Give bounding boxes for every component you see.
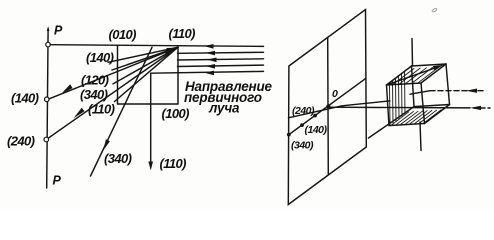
dashed continuation of upper ray — [430, 90, 486, 92]
svg-text:(340): (340) — [80, 87, 108, 102]
crystal square right edge — [177, 47, 179, 104]
svg-text:(140): (140) — [305, 124, 328, 136]
arrow tip at top of P line — [47, 26, 50, 31]
arrowhead on f3 — [61, 84, 73, 94]
svg-text:P: P — [54, 24, 63, 38]
svg-text:P: P — [53, 174, 62, 188]
fan trace f6 (110) — [115, 47, 179, 101]
node: open circle (240) on P line — [44, 137, 49, 142]
arrowhead primary beam — [470, 106, 481, 110]
spot dot (240) — [313, 114, 317, 118]
scan speck top right — [432, 8, 437, 12]
node: open circle (140) on P line — [45, 97, 50, 102]
svg-text:луча: луча — [208, 101, 240, 116]
arrowhead on f5 — [74, 108, 85, 119]
svg-text:(110): (110) — [88, 102, 115, 117]
crystal square bottom edge — [118, 103, 179, 105]
rotation axis below cube — [420, 122, 421, 151]
plate line P (left film trace) — [47, 29, 48, 188]
svg-text:0: 0 — [332, 88, 338, 100]
beam 3 — [178, 59, 264, 60]
hatching left face of cube — [390, 71, 406, 125]
beam 4 — [178, 65, 264, 66]
svg-text:(140): (140) — [86, 50, 114, 65]
svg-text:(240): (240) — [292, 105, 315, 117]
crystal cube hidden bottom-left edge FBL-BBL with tail extension — [369, 107, 415, 138]
svg-text:(140): (140) — [11, 91, 39, 106]
beam 5 (passes into square) — [151, 71, 264, 73]
fan ray f3 to circle (140) — [49, 47, 178, 99]
crystal square left edge — [117, 45, 119, 104]
crystal cube top face edge FTL-BTL — [387, 66, 412, 85]
dashed tail of primary beam — [474, 107, 490, 109]
steep diffraction line through plate — [289, 79, 366, 135]
spot dot (340) on plate edge — [287, 133, 291, 137]
diffracted ray (110)bar vertical arrow — [150, 73, 152, 166]
svg-text:(340): (340) — [104, 151, 132, 166]
diffracted ray (340) long arrow — [91, 47, 153, 176]
node: open circle at top of P line — [46, 42, 51, 47]
wire: top line from P circle to square corner, continues as beam 1 — [50, 45, 263, 47]
inner solid piece of upper ray — [410, 91, 430, 95]
primary beam horizontal through O — [328, 106, 470, 109]
svg-text:(120): (120) — [81, 73, 109, 88]
crystal cube bottom right edge FBR-BBR — [425, 105, 450, 124]
svg-text:(240): (240) — [7, 134, 35, 149]
arrowhead on (340) ray — [103, 139, 110, 150]
small arrowheads at fan origin corner — [166, 48, 175, 52]
crystal cube top face edge FTR-BTR — [421, 64, 446, 83]
crystal cube front face — [387, 83, 425, 126]
crystal cube back top edge BTL-BTR — [412, 64, 447, 66]
rotation axis above cube — [411, 39, 414, 66]
diagonal arrow on top face — [388, 67, 438, 85]
beam 2 — [178, 52, 264, 53]
fan trace f2 (120) — [112, 47, 178, 70]
fan trace f4 (340) — [113, 47, 178, 84]
hatching bottom face of cube — [391, 110, 441, 126]
svg-text:(110): (110) — [169, 26, 196, 41]
arrowhead upper dashed ray — [466, 89, 477, 93]
fan ray f5 to circle (240) — [48, 47, 178, 138]
crystal cube hidden bottom-back edge BBL-BBR — [414, 105, 450, 107]
arrowhead beam 1 — [204, 44, 214, 49]
svg-text:(100): (100) — [162, 106, 190, 121]
right diagram: photographic plate parallelogram — [288, 10, 366, 205]
svg-text:(340): (340) — [291, 139, 314, 151]
hatching top face of cube — [393, 67, 439, 85]
node O junction dot — [326, 104, 330, 108]
plate middle line — [327, 37, 330, 174]
svg-text:(010): (010) — [109, 27, 137, 42]
spot dot (140) — [300, 123, 304, 127]
crystal cube back right edge BTR-BBR — [446, 64, 450, 105]
crystal cube hidden back-left edge BTL-BBL — [412, 66, 415, 107]
svg-text:(110): (110) — [160, 156, 187, 171]
shallow ray from plate to cube — [289, 101, 390, 118]
fan trace f1 (140) — [108, 47, 178, 62]
